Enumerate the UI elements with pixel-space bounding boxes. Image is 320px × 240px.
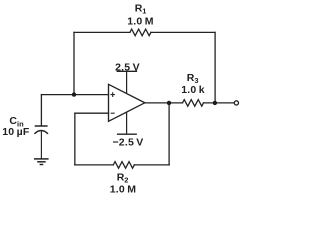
wire op-amp output bbox=[145, 102, 183, 104]
capacitor Cin bbox=[34, 126, 48, 159]
svg-text:R1: R1 bbox=[135, 3, 147, 16]
wire - input bbox=[75, 112, 109, 114]
wire left vertical from R1 to + input bbox=[73, 32, 75, 94]
resistor R3 bbox=[183, 100, 204, 107]
node junction at + input bbox=[72, 92, 76, 96]
svg-text:R3: R3 bbox=[187, 72, 199, 85]
node junction at R3 output bbox=[213, 101, 217, 105]
power +2.5V supply bbox=[115, 62, 140, 94]
op-amp U1 bbox=[109, 84, 145, 121]
svg-text:10 µF: 10 µF bbox=[2, 126, 30, 138]
wire feedback right vertical bbox=[168, 103, 170, 165]
wire top feedback left segment bbox=[74, 31, 130, 33]
wire - input vertical down bbox=[74, 113, 76, 165]
svg-text:−2.5 V: −2.5 V bbox=[112, 137, 143, 149]
wire + input bbox=[41, 94, 108, 96]
power -2.5V supply bbox=[112, 112, 143, 149]
resistor R1 bbox=[130, 29, 151, 36]
output terminal bbox=[234, 101, 238, 105]
ground bbox=[34, 159, 49, 165]
wire bottom right segment bbox=[134, 164, 169, 166]
node junction at op-amp output bbox=[167, 101, 171, 105]
wire R1 right vertical bbox=[214, 32, 216, 103]
wire top feedback right segment bbox=[151, 31, 215, 33]
wire bottom left segment bbox=[75, 164, 114, 166]
svg-text:1.0 k: 1.0 k bbox=[181, 84, 205, 96]
wire R3 to output terminal bbox=[204, 102, 234, 104]
resistor R2 bbox=[113, 162, 134, 169]
wire capacitor top lead bbox=[40, 95, 42, 126]
svg-text:1.0 M: 1.0 M bbox=[110, 184, 136, 196]
svg-text:2.5 V: 2.5 V bbox=[115, 62, 140, 74]
svg-text:1.0 M: 1.0 M bbox=[127, 15, 153, 27]
